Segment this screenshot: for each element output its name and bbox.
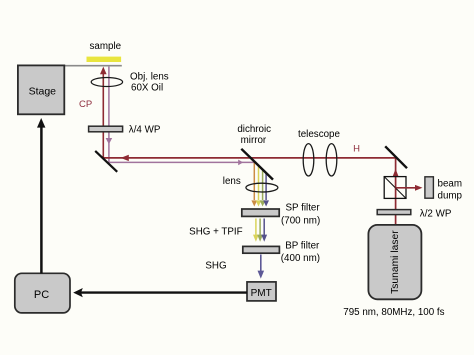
svg-text:PC: PC: [34, 289, 49, 301]
SHG+TPIF beam yellow: [253, 219, 259, 242]
emission beam yellow: [256, 166, 262, 207]
stage: [18, 65, 64, 114]
Tsunami laser: [368, 225, 421, 299]
svg-text:Stage: Stage: [29, 86, 57, 98]
SHG+TPIF beam indigo: [261, 219, 267, 242]
PC: [15, 273, 70, 313]
collection lens: [246, 183, 278, 192]
returning beam down from sample (purple): [106, 67, 113, 163]
svg-text:telescope: telescope: [298, 129, 340, 140]
quarter wave plate: [89, 126, 123, 132]
svg-text:mirror: mirror: [241, 135, 267, 146]
svg-text:CP: CP: [79, 99, 92, 110]
svg-text:795 nm, 80MHz, 100 fs: 795 nm, 80MHz, 100 fs: [343, 307, 444, 318]
svg-text:PMT: PMT: [251, 288, 272, 299]
laser beam vertical (red): [393, 158, 399, 225]
svg-text:Obj. lens: Obj. lens: [130, 71, 169, 82]
CP polarization label: [79, 99, 92, 110]
H beam horizontal (red): [103, 155, 395, 161]
beam splitter cube: [384, 177, 406, 199]
svg-text:Tsunami laser: Tsunami laser: [390, 230, 401, 294]
dichroic mirror label: [237, 124, 271, 146]
SHG label: [205, 260, 226, 271]
returning beam horizontal to dichroic (purple): [109, 160, 257, 166]
turning mirror upper-right: [385, 146, 407, 168]
svg-text:SP filter: SP filter: [286, 203, 321, 214]
coverslip line: [63, 65, 122, 67]
svg-text:(700 nm): (700 nm): [281, 216, 320, 227]
BP filter label: [281, 240, 320, 264]
objective lens label: [130, 71, 169, 93]
beam dump label: [438, 178, 463, 201]
emission beam green: [260, 170, 266, 207]
svg-text:dump: dump: [438, 190, 463, 201]
telescope label: [298, 129, 340, 140]
sample slide (yellow): [87, 57, 122, 62]
H polarization label: [353, 144, 360, 155]
signal wire PMT to PC: [73, 288, 247, 297]
svg-text:60X Oil: 60X Oil: [131, 83, 163, 94]
SP filter: [242, 209, 279, 216]
telescope lens 1: [303, 144, 314, 176]
svg-text:SHG: SHG: [205, 260, 226, 271]
collection lens label: [223, 176, 241, 187]
telescope lens 2: [326, 144, 337, 176]
SHG + TPIF label: [189, 227, 242, 238]
svg-text:dichroic: dichroic: [237, 124, 271, 135]
quarter wave plate label: [129, 125, 161, 136]
half wave plate: [377, 210, 411, 215]
beam to beam dump (red): [395, 185, 422, 191]
SP filter label: [281, 203, 320, 227]
excitation beam up to sample (red): [100, 67, 107, 158]
svg-text:λ/2 WP: λ/2 WP: [420, 209, 452, 220]
beam dump: [425, 177, 434, 198]
svg-text:λ/4 WP: λ/4 WP: [129, 125, 161, 136]
svg-text:sample: sample: [90, 41, 122, 52]
objective lens: [91, 78, 122, 87]
svg-text:H: H: [353, 144, 360, 155]
svg-text:SHG + TPIF: SHG + TPIF: [189, 227, 242, 238]
PMT: [247, 282, 276, 301]
half wave plate label: [420, 209, 452, 220]
control wire PC to stage: [37, 118, 45, 273]
svg-text:lens: lens: [223, 176, 241, 187]
emission beam indigo: [263, 173, 269, 207]
SHG beam to PMT (indigo): [258, 255, 265, 279]
steering mirror lower-left: [95, 151, 117, 172]
dichroic mirror: [241, 149, 273, 180]
sample label: [90, 41, 122, 52]
svg-text:BP filter: BP filter: [285, 240, 320, 251]
laser spec label: [343, 307, 444, 318]
svg-text:beam: beam: [438, 178, 463, 189]
SHG+TPIF beam green: [257, 219, 263, 242]
emission beam orange: [251, 162, 257, 207]
BP filter: [243, 246, 280, 253]
svg-text:(400 nm): (400 nm): [281, 253, 320, 264]
